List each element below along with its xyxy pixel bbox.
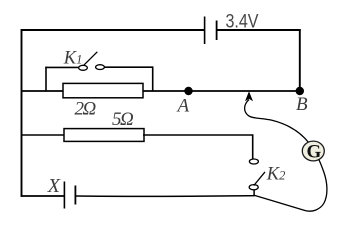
svg-text:K1: K1: [63, 48, 83, 68]
wire: top right horizontal from battery to corner: [217, 29, 301, 31]
resistor R2 5ohm: [64, 129, 144, 142]
svg-text:G: G: [307, 141, 322, 162]
wire: K1 branch left riser: [45, 67, 47, 91]
wire: K1 branch top horizontal left: [45, 66, 79, 68]
node B (junction dot): [296, 87, 304, 95]
wire: right vertical down to node B: [299, 29, 301, 91]
switch K2 (terminals and open lever): [249, 159, 265, 190]
wire: bottom horizontal from X to K2 lower terminal: [75, 190, 254, 197]
wire: R2 to right then down to switch K2: [143, 135, 253, 159]
sliding probe arrowhead on wire AB: [245, 91, 253, 101]
wire: middle horizontal, left bus to resistor R1: [22, 90, 65, 92]
resistor R1 2ohm: [63, 83, 143, 97]
wire: K1 branch top horizontal right: [104, 66, 153, 68]
wire: left vertical bus: [21, 29, 23, 197]
galvanometer G: [302, 141, 324, 162]
wire: flexible lead from probe through galvanometer to K2: [245, 100, 327, 212]
battery 3.4V (cell plates): [205, 17, 217, 45]
wire: K1 branch right riser: [152, 66, 154, 91]
svg-text:A: A: [176, 95, 190, 116]
svg-text:X: X: [47, 175, 61, 197]
node A (junction dot): [184, 87, 192, 95]
wire: 5 ohm branch, left bus to resistor R2: [22, 134, 66, 136]
wire: top left horizontal to battery: [21, 29, 204, 31]
svg-text:2Ω: 2Ω: [75, 99, 97, 120]
svg-text:5Ω: 5Ω: [112, 109, 134, 130]
wire: middle horizontal A-B segment: [142, 90, 300, 92]
battery X (cell plates): [64, 182, 75, 209]
svg-text:B: B: [296, 94, 308, 115]
wire: bottom left horizontal to battery X: [21, 195, 64, 197]
svg-text:K2: K2: [266, 165, 286, 185]
switch K1 (terminals and open lever): [79, 52, 105, 71]
